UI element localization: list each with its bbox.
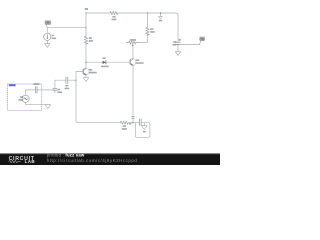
node V+ flag label text — [85, 8, 88, 10]
capacitor C1 input — [53, 88, 62, 93]
junction at R2 branch — [147, 12, 148, 13]
current source I1 — [44, 28, 56, 41]
wire top rail left segment — [86, 12, 110, 14]
wire V1 bottom to box edge — [26, 102, 42, 104]
resistor R2 — [146, 27, 155, 35]
wire base node up to Q1 base — [75, 72, 77, 81]
wire R4 to emitter node — [128, 122, 133, 124]
ground bypass — [142, 123, 148, 130]
junction I1 tap — [85, 27, 86, 28]
junction top rail at collector branch — [85, 12, 86, 13]
wire loop to ground — [135, 123, 150, 138]
capacitor C5 in guitar box — [33, 83, 39, 93]
svg-text:http://circuitlab.com/c/4j6yK2: http://circuitlab.com/c/4j6yK2Hccppd — [47, 158, 138, 163]
capacitor C7 bypass — [139, 119, 145, 132]
node flag out — [200, 37, 205, 45]
wire collector branch vertical — [85, 13, 87, 36]
svg-text:printed : fuzz saw: printed : fuzz saw — [47, 153, 85, 158]
junction base node — [75, 80, 76, 81]
wire C1 up and right to C2 — [55, 80, 66, 88]
wire Q2 emitter down — [132, 66, 134, 123]
wire input to C1 — [42, 89, 55, 91]
footer url line — [47, 158, 138, 163]
ground below Q1 emitter — [83, 75, 89, 81]
ground guitar shield — [42, 105, 51, 109]
junction base drive tap — [85, 62, 86, 63]
wire emitter node to C7 — [133, 122, 139, 124]
footer bar — [0, 153, 220, 165]
resistor R1 — [110, 11, 118, 20]
ground below C4 — [175, 44, 181, 55]
guitar subcircuit box — [8, 84, 42, 110]
wire flag to rail branch — [47, 27, 86, 29]
junction out — [177, 44, 178, 45]
ground on rail — [159, 12, 163, 21]
resistor R3 collector load — [84, 36, 93, 44]
voltage source V1 — [19, 95, 30, 102]
wire Q1 base — [76, 71, 83, 73]
ground below I1 — [45, 40, 51, 47]
capacitor C4 output — [172, 39, 180, 46]
node flag 9V — [45, 21, 51, 28]
wire diode to Q2 base — [106, 61, 130, 63]
footer printed line — [47, 153, 85, 158]
junction emitter node — [132, 122, 133, 123]
wire R2 to rail — [147, 13, 149, 27]
svg-text:LAB: LAB — [25, 159, 36, 164]
wire Q1 collector to diode — [86, 61, 102, 63]
diode D1 — [101, 57, 109, 67]
resistor R4 feedback — [120, 121, 128, 130]
capacitor C2 — [65, 77, 70, 89]
wire out — [178, 43, 200, 45]
potentiometer R5 — [126, 39, 138, 46]
transistor Q2 — [129, 58, 144, 66]
wire V1 top to C5 — [26, 90, 36, 95]
wire C5 to box edge — [37, 89, 42, 91]
CircuitLab logo — [9, 156, 36, 164]
wire C2 to base node — [68, 79, 76, 81]
wire feedback vertical — [76, 80, 120, 123]
transistor Q1 — [82, 67, 97, 75]
wire R3 to Q1 collector — [85, 43, 87, 68]
capacitor C6 marks in emitter line — [129, 117, 135, 125]
wire pot to R2 — [139, 34, 148, 42]
wire top rail right segment — [118, 13, 178, 42]
wire pot wiper to Q2 collector — [132, 46, 134, 58]
